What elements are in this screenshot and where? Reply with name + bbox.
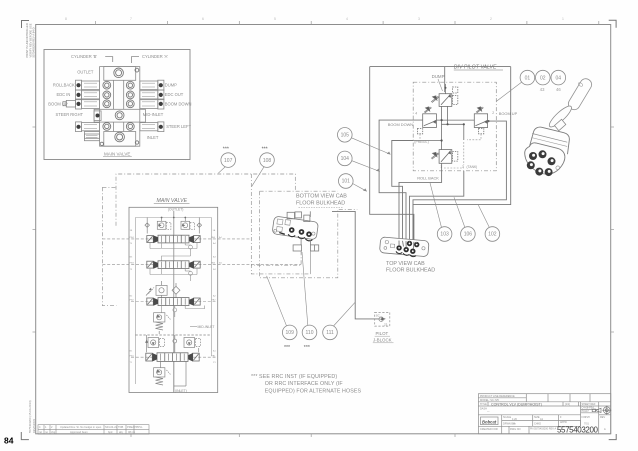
solid drops from plate to dashed runs bbox=[301, 211, 314, 251]
svg-text:(OUTLET): (OUTLET) bbox=[168, 207, 184, 211]
svg-text:A2: A2 bbox=[213, 295, 216, 298]
svg-text:DWG NO: DWG NO bbox=[510, 428, 521, 431]
big dashed box top edge bbox=[116, 174, 295, 226]
svg-text:1:20: 1:20 bbox=[512, 418, 517, 421]
svg-text:1: 1 bbox=[45, 425, 47, 429]
svg-text:Approved been: Approved been bbox=[70, 430, 88, 434]
S2 lower connectors bbox=[150, 269, 197, 282]
svg-text:PB4: PB4 bbox=[130, 237, 135, 239]
svg-text:B2: B2 bbox=[130, 296, 133, 298]
svg-text:A: A bbox=[604, 428, 606, 431]
svg-text:DIV PILOT VALVE: DIV PILOT VALVE bbox=[454, 65, 497, 71]
svg-text:bb: bb bbox=[513, 423, 516, 426]
svg-text:MID-INLET: MID-INLET bbox=[143, 112, 164, 117]
svg-text:8: 8 bbox=[65, 17, 67, 21]
svg-text:bpd: bpd bbox=[108, 430, 113, 434]
svg-text:T3: T3 bbox=[130, 269, 133, 271]
tiny port labels on schematic edges bbox=[130, 229, 223, 364]
svg-text:PREAPPRVL: PREAPPRVL bbox=[127, 425, 143, 429]
corner crop mark top-right bbox=[609, 20, 616, 27]
solenoid valve BOOM DOWN (left) bbox=[417, 107, 436, 134]
svg-text:3: 3 bbox=[418, 17, 420, 21]
handle bbox=[566, 77, 593, 112]
bottom view bulkhead dashed box bbox=[260, 191, 358, 278]
svg-text:1: 1 bbox=[562, 17, 564, 21]
svg-text:[1/1]: [1/1] bbox=[565, 403, 570, 406]
rotated margin text bottom-left bbox=[28, 400, 36, 433]
top check valve pair bbox=[145, 218, 202, 234]
collar disk bbox=[547, 103, 574, 129]
svg-text:BOTTOM VIEW CAB: BOTTOM VIEW CAB bbox=[296, 193, 347, 199]
spool section S1 bbox=[102, 235, 251, 243]
svg-text:106: 106 bbox=[464, 232, 473, 238]
svg-text:(INLET): (INLET) bbox=[175, 389, 187, 393]
top small table bbox=[478, 401, 610, 403]
dashed vertical to bulkhead area bbox=[251, 174, 310, 274]
press hose bbox=[392, 141, 413, 242]
boom-up stub far left bbox=[66, 100, 75, 107]
rotated margin text top-left bbox=[25, 23, 35, 57]
relief valve mid bbox=[146, 281, 180, 298]
tank hose bbox=[410, 171, 464, 243]
svg-text:PA2: PA2 bbox=[212, 299, 217, 302]
svg-text:46: 46 bbox=[556, 87, 561, 92]
logo / fields band bbox=[478, 425, 580, 427]
svg-text:01: 01 bbox=[525, 75, 531, 81]
svg-text:5: 5 bbox=[274, 17, 276, 21]
lower relief valve with spring bbox=[154, 361, 186, 392]
svg-text:FINISH: FINISH bbox=[582, 416, 590, 419]
svg-text:B1: B1 bbox=[130, 351, 133, 353]
enclosure box bbox=[44, 50, 190, 160]
svg-text:BOOM UP: BOOM UP bbox=[499, 111, 518, 116]
svg-text:STEER RIGHT: STEER RIGHT bbox=[56, 112, 84, 117]
stem bbox=[555, 119, 566, 130]
leader CYLINDER B bbox=[105, 57, 113, 62]
wing row 3 right bbox=[140, 100, 158, 109]
top cap bbox=[104, 67, 136, 81]
svg-text:—: — bbox=[487, 411, 490, 414]
steer row right bbox=[140, 123, 158, 131]
svg-text:PA4: PA4 bbox=[211, 236, 216, 239]
svg-text:P0147: P0147 bbox=[582, 410, 590, 413]
bottom row bbox=[508, 426, 510, 434]
base flange outline bbox=[530, 127, 570, 154]
svg-text:TITLE: TITLE bbox=[480, 403, 487, 406]
svg-text:T1: T1 bbox=[130, 362, 133, 364]
svg-text:P1: P1 bbox=[213, 362, 216, 364]
right gallery rail bbox=[211, 218, 213, 357]
svg-text:SC: SC bbox=[376, 313, 381, 317]
lower check valves row bbox=[135, 335, 211, 352]
svg-text:***: *** bbox=[284, 345, 290, 351]
svg-text:ROLLBACK: ROLLBACK bbox=[53, 83, 75, 88]
svg-text:SCALE: SCALE bbox=[503, 416, 512, 419]
plate tabs above bbox=[287, 212, 319, 251]
svg-text:PB3: PB3 bbox=[130, 263, 135, 265]
top header line bbox=[135, 217, 211, 219]
S3 connectors and mid relief with spring bbox=[162, 306, 205, 318]
svg-text:B4: B4 bbox=[213, 269, 216, 271]
svg-text:110: 110 bbox=[306, 330, 314, 336]
svg-text:PRODUCT LINE REFERENCE: PRODUCT LINE REFERENCE bbox=[480, 395, 515, 398]
svg-text:T4: T4 bbox=[130, 243, 133, 245]
svg-text:OUTLET: OUTLET bbox=[77, 70, 94, 75]
boom up hose bbox=[413, 121, 506, 242]
corner crop mark top-left bbox=[22, 21, 30, 29]
left bottom inlet block bbox=[84, 132, 99, 141]
svg-text:BOOM DOWN: BOOM DOWN bbox=[388, 122, 413, 127]
svg-text:TOP VIEW CAB: TOP VIEW CAB bbox=[386, 261, 425, 267]
zone ticks sides bbox=[33, 127, 615, 332]
pilot valve dashed enclosure bbox=[413, 82, 496, 171]
svg-text:***: *** bbox=[223, 147, 229, 153]
zone tick marks top bbox=[96, 21, 599, 25]
svg-text:S04-04-22: S04-04-22 bbox=[105, 425, 118, 429]
svg-text:102: 102 bbox=[488, 232, 497, 238]
svg-text:A4: A4 bbox=[213, 242, 216, 245]
svg-text:***: *** bbox=[262, 147, 268, 153]
svg-text:MAIN VALVE: MAIN VALVE bbox=[104, 151, 130, 156]
left gallery rail bbox=[134, 218, 136, 385]
svg-text:Bobcat: Bobcat bbox=[482, 420, 497, 425]
labels main valve view bbox=[48, 54, 191, 140]
internal cross wiring bbox=[413, 84, 474, 150]
fittings on bottom-view plate bbox=[289, 227, 312, 237]
svg-text:TDB: TDB bbox=[118, 425, 123, 429]
svg-text:FLOOR BULKHEAD: FLOOR BULKHEAD bbox=[296, 200, 345, 206]
plate (bottom view) bbox=[272, 216, 319, 240]
svg-text:A4: A4 bbox=[219, 236, 222, 239]
svg-text:1A: 1A bbox=[213, 229, 216, 232]
svg-text:111: 111 bbox=[326, 330, 334, 336]
svg-text:FLOOR BULKHEAD: FLOOR BULKHEAD bbox=[386, 268, 435, 274]
svg-text:BOOM UP: BOOM UP bbox=[48, 101, 68, 106]
svg-text:MAIN VALVE: MAIN VALVE bbox=[157, 198, 188, 204]
svg-text:PA1: PA1 bbox=[212, 354, 217, 357]
solenoid valve ROLL BACK (bottom) bbox=[431, 150, 458, 164]
svg-text:INLET: INLET bbox=[147, 135, 159, 140]
svg-text:Updated Rev. St. No budget in: Updated Rev. St. No budget in spec. bbox=[60, 425, 102, 429]
asterisk marks bbox=[223, 147, 310, 352]
solenoid valve BOOM UP (right) bbox=[474, 107, 487, 134]
svg-text:43: 43 bbox=[540, 87, 545, 92]
zone numerals top (faint) bbox=[65, 17, 564, 21]
svg-text:105: 105 bbox=[341, 133, 350, 139]
svg-text:rel: rel bbox=[39, 430, 42, 434]
spool section S2 bbox=[102, 261, 301, 269]
svg-text:CYLINDER 'B': CYLINDER 'B' bbox=[71, 54, 97, 59]
svg-text:04: 04 bbox=[556, 75, 562, 81]
bottom cap bbox=[104, 132, 136, 147]
svg-text:DUMP: DUMP bbox=[165, 83, 177, 88]
svg-text:chg: chg bbox=[51, 430, 56, 434]
port numbers / labels bbox=[414, 111, 494, 169]
svg-text:F: F bbox=[560, 416, 562, 419]
svg-text:5575403200: 5575403200 bbox=[557, 425, 599, 434]
title block texts bbox=[480, 395, 606, 431]
svg-text:5575403200 (15-04-2014): 5575403200 (15-04-2014) bbox=[28, 400, 32, 433]
corner crop mark bottom-left bbox=[21, 432, 29, 440]
wire stubs over top-view plate bbox=[399, 241, 417, 249]
svg-text:1B: 1B bbox=[130, 230, 133, 232]
spool section S4 bbox=[131, 353, 216, 362]
svg-text:CHKD: CHKD bbox=[534, 423, 541, 426]
svg-text:107: 107 bbox=[224, 158, 233, 164]
middle area bbox=[478, 414, 580, 416]
svg-text:***: *** bbox=[304, 345, 310, 351]
joystick fittings bbox=[527, 150, 556, 176]
port circles on body bbox=[100, 68, 139, 146]
svg-text:6: 6 bbox=[202, 17, 204, 21]
dashed links from bulkhead tabs bbox=[251, 251, 310, 274]
leader arrowheads (105/104/101) bbox=[387, 152, 391, 155]
balloon leaders bbox=[218, 82, 521, 326]
svg-text:MID-INLET: MID-INLET bbox=[198, 325, 215, 329]
corner crop mark bottom-right bbox=[609, 434, 617, 440]
wing row 2 left bbox=[82, 91, 100, 99]
svg-text:STEER LEFT: STEER LEFT bbox=[166, 124, 191, 129]
svg-text:CONTROL VLV (DUMP/HOIST): CONTROL VLV (DUMP/HOIST) bbox=[491, 402, 542, 406]
svg-text:REVISIONS: REVISIONS bbox=[32, 419, 36, 433]
svg-text:PILOT: PILOT bbox=[376, 331, 389, 336]
svg-text:02: 02 bbox=[540, 75, 546, 81]
svg-text:CREATED FOR: CREATED FOR bbox=[480, 428, 498, 431]
svg-text:A3: A3 bbox=[213, 256, 216, 259]
S1 to S2 connectors bbox=[150, 243, 197, 261]
svg-text:3: 3 bbox=[462, 165, 464, 169]
svg-text:EDC IN: EDC IN bbox=[57, 92, 71, 97]
svg-text:A1: A1 bbox=[213, 350, 216, 353]
valve body center slab bbox=[100, 67, 140, 147]
svg-text:(PRESS.): (PRESS.) bbox=[414, 140, 428, 144]
pilot j-block bbox=[375, 312, 390, 326]
svg-text:CYLINDER 'A': CYLINDER 'A' bbox=[142, 54, 168, 59]
dump hose outer rectangle bbox=[370, 67, 511, 244]
svg-text:23: 23 bbox=[384, 322, 388, 326]
svg-text:EQUIPPED) FOR ALTERNATE HOSES: EQUIPPED) FOR ALTERNATE HOSES bbox=[265, 389, 362, 395]
svg-text:4: 4 bbox=[346, 17, 348, 21]
svg-text:08 mx: 08 mx bbox=[128, 430, 136, 434]
svg-text:5575403200 REV A 84-D: 5575403200 REV A 84-D bbox=[32, 27, 36, 57]
svg-text:2: 2 bbox=[490, 17, 492, 21]
svg-text:afq: afq bbox=[119, 430, 123, 434]
svg-text:APPD: APPD bbox=[560, 421, 567, 424]
svg-text:4: 4 bbox=[415, 112, 417, 116]
svg-text:7: 7 bbox=[130, 17, 132, 21]
title row bbox=[478, 405, 610, 407]
svg-text:ROLL BACK: ROLL BACK bbox=[417, 176, 439, 181]
wing row 1 right bbox=[140, 81, 158, 89]
schematic enclosure bbox=[129, 207, 218, 392]
roll back hose bbox=[399, 163, 442, 241]
wing row 1 left bbox=[82, 81, 100, 89]
boom down hose bbox=[379, 120, 423, 242]
svg-text:103: 103 bbox=[440, 232, 449, 238]
svg-text:2: 2 bbox=[492, 111, 494, 115]
pressure relief w/ spring (upper) bbox=[154, 313, 171, 334]
svg-text:101: 101 bbox=[342, 179, 351, 185]
spool section S3 bbox=[131, 298, 216, 306]
svg-text:84: 84 bbox=[4, 436, 14, 446]
projection symbols bbox=[592, 406, 611, 415]
wing row 2 right bbox=[140, 91, 158, 99]
svg-text:EDC OUT: EDC OUT bbox=[165, 92, 184, 97]
svg-text:PA3: PA3 bbox=[211, 262, 216, 265]
svg-text:BOOM DOWN: BOOM DOWN bbox=[165, 101, 192, 106]
svg-text:SHEET REF: SHEET REF bbox=[582, 403, 596, 406]
svg-text:REV: REV bbox=[600, 416, 605, 419]
steer row left bbox=[82, 123, 100, 131]
svg-text:*** SEE RRC INST (IF EQUIPPED): *** SEE RRC INST (IF EQUIPPED) bbox=[251, 374, 337, 380]
solenoid valve DUMP (top) bbox=[431, 87, 458, 106]
svg-text:4: 4 bbox=[39, 425, 41, 429]
wing row 3 left bbox=[82, 100, 100, 109]
center pressure rail bbox=[173, 211, 175, 393]
svg-text:B3: B3 bbox=[130, 257, 133, 259]
svg-text:OR RRC INTERFACE ONLY (IF: OR RRC INTERFACE ONLY (IF bbox=[265, 381, 344, 387]
dashed internal pilot lines bbox=[420, 134, 481, 168]
svg-text:DUMP: DUMP bbox=[432, 74, 445, 79]
leader CYLINDER A bbox=[132, 57, 140, 63]
svg-text:J-BLOCK: J-BLOCK bbox=[373, 338, 392, 343]
svg-text:2: 2 bbox=[51, 425, 53, 429]
svg-text:B4: B4 bbox=[219, 263, 222, 265]
zone ticks bottom bbox=[131, 434, 455, 437]
base body bbox=[525, 143, 565, 174]
svg-text:(TANK): (TANK) bbox=[467, 165, 478, 169]
svg-text:108: 108 bbox=[263, 158, 272, 164]
middle band bbox=[94, 109, 145, 122]
svg-text:SIZE: SIZE bbox=[534, 416, 540, 419]
left outer dashed vertical bbox=[102, 187, 116, 305]
svg-text:109: 109 bbox=[286, 330, 295, 336]
svg-text:104: 104 bbox=[341, 156, 350, 162]
dark port fittings on wings bbox=[76, 83, 162, 129]
svg-text:PN 5575403200 REV A: PN 5575403200 REV A bbox=[530, 428, 556, 431]
internal column dividers bbox=[113, 80, 115, 109]
